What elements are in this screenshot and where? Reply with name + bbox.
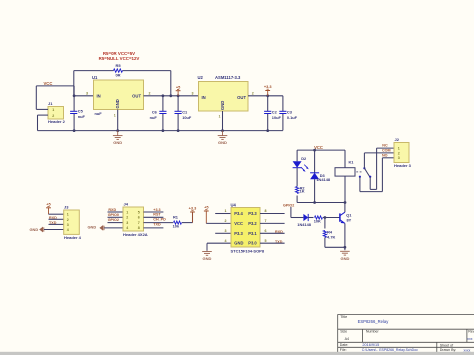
- wire: J1 pin2 to ground rail: [38, 114, 49, 116]
- svg-text:VCC: VCC: [234, 221, 243, 226]
- svg-text:RST: RST: [153, 213, 161, 217]
- capacitor C6: [162, 96, 164, 112]
- svg-text:Drawn By:: Drawn By:: [440, 348, 457, 352]
- svg-text:GPIO2: GPIO2: [283, 204, 294, 208]
- regulator U2 ASM1117-3.3: [199, 82, 249, 112]
- svg-text:D2: D2: [301, 156, 307, 161]
- bottom gray band: [0, 352, 474, 355]
- resistor R1: [174, 221, 182, 224]
- svg-text:C5: C5: [78, 109, 84, 114]
- svg-text:1: 1: [398, 147, 400, 151]
- connector J3 Header 4: [64, 210, 80, 234]
- svg-text:P3.3: P3.3: [234, 231, 243, 236]
- resistor R5: [114, 69, 123, 72]
- wire: U2 OUT rail +3.3: [248, 95, 283, 97]
- svg-text:2: 2: [398, 151, 400, 155]
- svg-text:Size: Size: [340, 330, 347, 334]
- svg-text:10K: 10K: [314, 219, 321, 224]
- svg-text:R5: R5: [115, 63, 121, 68]
- node: base junction: [324, 216, 327, 219]
- svg-text:J1: J1: [48, 101, 53, 106]
- svg-text:2: 2: [149, 91, 151, 95]
- svg-text:COM: COM: [382, 149, 391, 153]
- svg-text:C:\Users\.. ESP8266_Relay.Sch: C:\Users\.. ESP8266_Relay.SchDoc: [362, 348, 418, 352]
- svg-text:P3.3: P3.3: [248, 211, 257, 216]
- node: VCC junction: [313, 149, 316, 152]
- wire: J4 pin2: [108, 216, 124, 218]
- svg-text:GND: GND: [234, 241, 243, 246]
- svg-text:2: 2: [52, 114, 54, 118]
- svg-text:GND: GND: [30, 227, 39, 232]
- svg-text:6: 6: [138, 216, 140, 220]
- svg-text:1K: 1K: [300, 189, 305, 194]
- relay K1 coil: [335, 168, 355, 176]
- wire: J3 pin3: [49, 223, 64, 225]
- wire: relay coil bottom: [344, 176, 346, 202]
- svg-text:J3: J3: [64, 204, 69, 209]
- power port +3.3: [267, 91, 269, 96]
- regulator U1: [94, 80, 144, 110]
- svg-text:GND: GND: [113, 140, 122, 145]
- svg-text:+3.3: +3.3: [153, 208, 160, 212]
- mcu U4: [231, 208, 260, 248]
- svg-text:10uF: 10uF: [272, 115, 282, 120]
- power port +5 at U4: [205, 211, 207, 223]
- wire: J3 pin2: [49, 218, 64, 220]
- svg-text:1: 1: [67, 213, 69, 217]
- svg-text:7: 7: [138, 221, 140, 225]
- svg-text:GPIO0: GPIO0: [108, 213, 119, 217]
- wire: J4 pin3: [108, 222, 124, 224]
- power port +5 at J3: [48, 208, 50, 214]
- svg-text:U2: U2: [198, 75, 204, 80]
- svg-text:NC: NC: [382, 144, 388, 148]
- wire: J1 pin1: [36, 108, 48, 110]
- resistor R3 10K: [315, 216, 323, 219]
- svg-text:ESP8266_Relay: ESP8266_Relay: [358, 319, 390, 324]
- svg-text:Sheet of: Sheet of: [440, 343, 453, 347]
- svg-text:GND: GND: [203, 256, 212, 261]
- svg-text:OUT: OUT: [132, 93, 141, 98]
- wire: emitter down to GND: [344, 223, 346, 250]
- transistor Q1: [339, 213, 341, 221]
- wire: J3 pin4: [44, 229, 64, 231]
- svg-text:2: 2: [225, 219, 227, 223]
- svg-text:GND: GND: [218, 140, 227, 145]
- svg-text:3: 3: [67, 223, 69, 227]
- ground below Q1: [340, 250, 350, 252]
- svg-text:File:: File:: [340, 348, 347, 352]
- title block frame: [338, 313, 474, 315]
- node: D3 junction: [313, 201, 316, 204]
- diode D1 1N4148: [303, 214, 308, 221]
- wire: U1 GND pin: [117, 110, 119, 131]
- wire: D3 down: [314, 179, 316, 202]
- wire: U4 pin3 stub: [215, 232, 231, 234]
- wire: J4 pin7 to R1: [144, 222, 174, 224]
- svg-text:Header 4X2A: Header 4X2A: [123, 232, 148, 237]
- svg-text:nuF: nuF: [150, 115, 158, 120]
- svg-text:5: 5: [138, 210, 140, 214]
- svg-text:5: 5: [265, 239, 267, 243]
- svg-text:1N4148: 1N4148: [297, 222, 311, 227]
- node: C6 junction: [162, 94, 165, 97]
- wire: R4 branch down: [324, 218, 326, 229]
- capacitor C2: [267, 96, 269, 112]
- wire: COM to J2 pin2: [363, 153, 365, 168]
- svg-text:GND: GND: [340, 256, 349, 261]
- wire: J4 pin4: [104, 227, 123, 229]
- wire: R4 to emitter rail: [324, 238, 326, 248]
- svg-text:0.1uF: 0.1uF: [287, 115, 298, 120]
- connector J4 Header 4X2A: [123, 207, 144, 231]
- svg-text:U1: U1: [92, 75, 98, 80]
- svg-text:Header 4: Header 4: [64, 235, 82, 240]
- svg-text:0R: 0R: [115, 72, 120, 77]
- wire: flyback branch upper: [314, 150, 316, 173]
- wire: R1 to +3.3 port: [182, 222, 193, 224]
- wire: J4 pin8: [144, 227, 164, 229]
- svg-text:Header 2: Header 2: [48, 119, 66, 124]
- svg-text:2016/9/15: 2016/9/15: [362, 343, 379, 347]
- svg-text:4: 4: [67, 228, 69, 232]
- svg-text:GND: GND: [88, 225, 97, 230]
- wire: NO to J2 pin3: [382, 157, 394, 159]
- svg-text:1: 1: [126, 210, 128, 214]
- svg-text:OUT: OUT: [237, 95, 246, 100]
- svg-text:3: 3: [192, 91, 194, 95]
- wire: R2 down: [296, 196, 298, 203]
- wire: U1 OUT rail: [144, 95, 199, 97]
- svg-text:STC15F104-SOP8: STC15F104-SOP8: [231, 249, 265, 254]
- wire: U4 pin7 stub: [260, 222, 285, 224]
- svg-text:R1: R1: [173, 214, 179, 219]
- svg-text:1N4148: 1N4148: [316, 177, 330, 182]
- svg-text:3: 3: [126, 221, 128, 225]
- node: C2 junction: [266, 94, 269, 97]
- svg-text:GPIO2: GPIO2: [108, 218, 119, 222]
- svg-text:Header 3: Header 3: [394, 163, 412, 168]
- svg-text:Date:: Date:: [340, 343, 349, 347]
- svg-text:1: 1: [219, 115, 221, 119]
- svg-text:RXD: RXD: [108, 208, 116, 212]
- svg-text:1: 1: [114, 114, 116, 118]
- wire: J3 pin1: [49, 213, 64, 215]
- svg-text:xxx: xxx: [467, 337, 472, 341]
- svg-text:P3.2: P3.2: [248, 221, 257, 226]
- svg-text:nuF: nuF: [78, 114, 86, 119]
- svg-text:8: 8: [138, 226, 140, 230]
- led D2 emission arrows: [301, 167, 305, 171]
- diode D3 1N4148 flyback: [310, 172, 319, 174]
- power port +3.3 at R1: [192, 212, 194, 223]
- wire: input rail down through C5: [73, 86, 75, 111]
- svg-text:8Y: 8Y: [347, 217, 352, 222]
- svg-text:A4: A4: [345, 337, 349, 341]
- wire: VCC input: [36, 85, 74, 87]
- wire: J4 pin5: [144, 211, 164, 213]
- svg-text:10uF: 10uF: [182, 115, 192, 120]
- svg-text:P3.4: P3.4: [234, 211, 243, 216]
- svg-text:3: 3: [86, 91, 88, 95]
- wire: to U1 IN: [74, 95, 93, 97]
- capacitor C1: [177, 96, 179, 112]
- svg-text:2: 2: [126, 216, 128, 220]
- svg-text:+3.3: +3.3: [264, 84, 273, 89]
- led D2: [293, 161, 302, 167]
- wire: U4 pin8 stub: [260, 213, 285, 215]
- svg-text:+3.3: +3.3: [189, 206, 198, 211]
- wire: U4 pin1 stub: [215, 213, 231, 215]
- svg-text:P3.1: P3.1: [248, 231, 257, 236]
- svg-text:IN: IN: [97, 93, 101, 98]
- svg-text:nuF: nuF: [95, 111, 103, 116]
- svg-text:3: 3: [398, 156, 400, 160]
- wire: U4 GND pin4: [207, 242, 231, 244]
- wire: collector up: [344, 203, 346, 213]
- ground below U2: [222, 131, 224, 136]
- svg-text:4: 4: [126, 226, 128, 230]
- svg-text:GND: GND: [115, 99, 120, 108]
- node: rail junctions: [73, 129, 76, 132]
- wire: U4 pin5: [260, 242, 285, 244]
- svg-text:VCC: VCC: [44, 81, 53, 86]
- relay K1 contact linkage dashes: [356, 171, 358, 173]
- node: IN rail junction: [73, 94, 76, 97]
- svg-text:3: 3: [225, 229, 227, 233]
- wire: NC to J2 pin1: [377, 147, 394, 149]
- resistor R4 4.7K: [323, 230, 326, 237]
- node: emitter/R4 junction: [344, 246, 347, 249]
- wire: R3 to Q1 base: [323, 217, 340, 219]
- wire: collector rail: [297, 202, 345, 204]
- svg-text:Title: Title: [340, 315, 347, 319]
- svg-text:GND: GND: [220, 101, 225, 110]
- ground below U4: [206, 250, 208, 253]
- wire: VCC rail: [297, 149, 345, 151]
- svg-text:U4: U4: [231, 202, 237, 207]
- svg-text:ASM1117-3.3: ASM1117-3.3: [215, 75, 241, 80]
- connector J2 Header 3: [394, 143, 409, 163]
- svg-text:Revision: Revision: [468, 330, 474, 334]
- wire: D1 to R3: [308, 217, 313, 219]
- svg-text:CH_PD: CH_PD: [153, 218, 166, 222]
- node: R5 junction: [169, 94, 172, 97]
- svg-text:1: 1: [225, 209, 227, 213]
- power port +5: [177, 91, 179, 96]
- svg-text:2: 2: [252, 91, 254, 95]
- wire: U4 pin6: [260, 232, 285, 234]
- svg-text:4: 4: [225, 239, 227, 243]
- capacitor C3: [282, 96, 284, 112]
- node: relay junction: [344, 201, 347, 204]
- svg-text:IN: IN: [202, 95, 206, 100]
- svg-text:J2: J2: [395, 137, 400, 142]
- wire: relay coil top: [344, 150, 346, 168]
- wire: J4 pin1: [108, 211, 124, 213]
- svg-text:1: 1: [52, 108, 54, 112]
- svg-text:7: 7: [265, 219, 267, 223]
- connector J1 Header 2: [48, 107, 64, 120]
- node: +5 junction: [177, 94, 180, 97]
- svg-text:J4: J4: [124, 202, 129, 207]
- wire: U2 GND pin: [222, 111, 224, 131]
- relay K1 contact armature: [363, 167, 365, 169]
- svg-text:K1: K1: [349, 160, 355, 165]
- svg-text:6: 6: [265, 229, 267, 233]
- svg-text:P3.0: P3.0: [248, 241, 257, 246]
- wire: GPIO2 to D1: [290, 207, 292, 218]
- svg-text:R5=NULL VCC=12V: R5=NULL VCC=12V: [99, 56, 140, 61]
- wire: R5 bypass from IN rail to OUT rail: [73, 71, 75, 96]
- svg-text:8: 8: [265, 209, 267, 213]
- wire: J4 pin6: [144, 216, 164, 218]
- wire: LED to R2: [296, 168, 298, 187]
- wire: U4 VCC pin2: [206, 222, 231, 224]
- svg-text:TXD: TXD: [153, 222, 161, 226]
- svg-text:4.7K: 4.7K: [327, 234, 335, 239]
- ground below U1: [117, 131, 119, 136]
- wire: bottom ground rail: [38, 130, 283, 132]
- svg-text:Number: Number: [366, 330, 380, 334]
- svg-text:10k: 10k: [173, 224, 180, 229]
- svg-text:NO: NO: [382, 153, 388, 157]
- wire: LED branch upper: [296, 150, 298, 161]
- capacitor C5: [70, 110, 77, 112]
- svg-text:2: 2: [67, 218, 69, 222]
- resistor R2 1K: [296, 187, 299, 194]
